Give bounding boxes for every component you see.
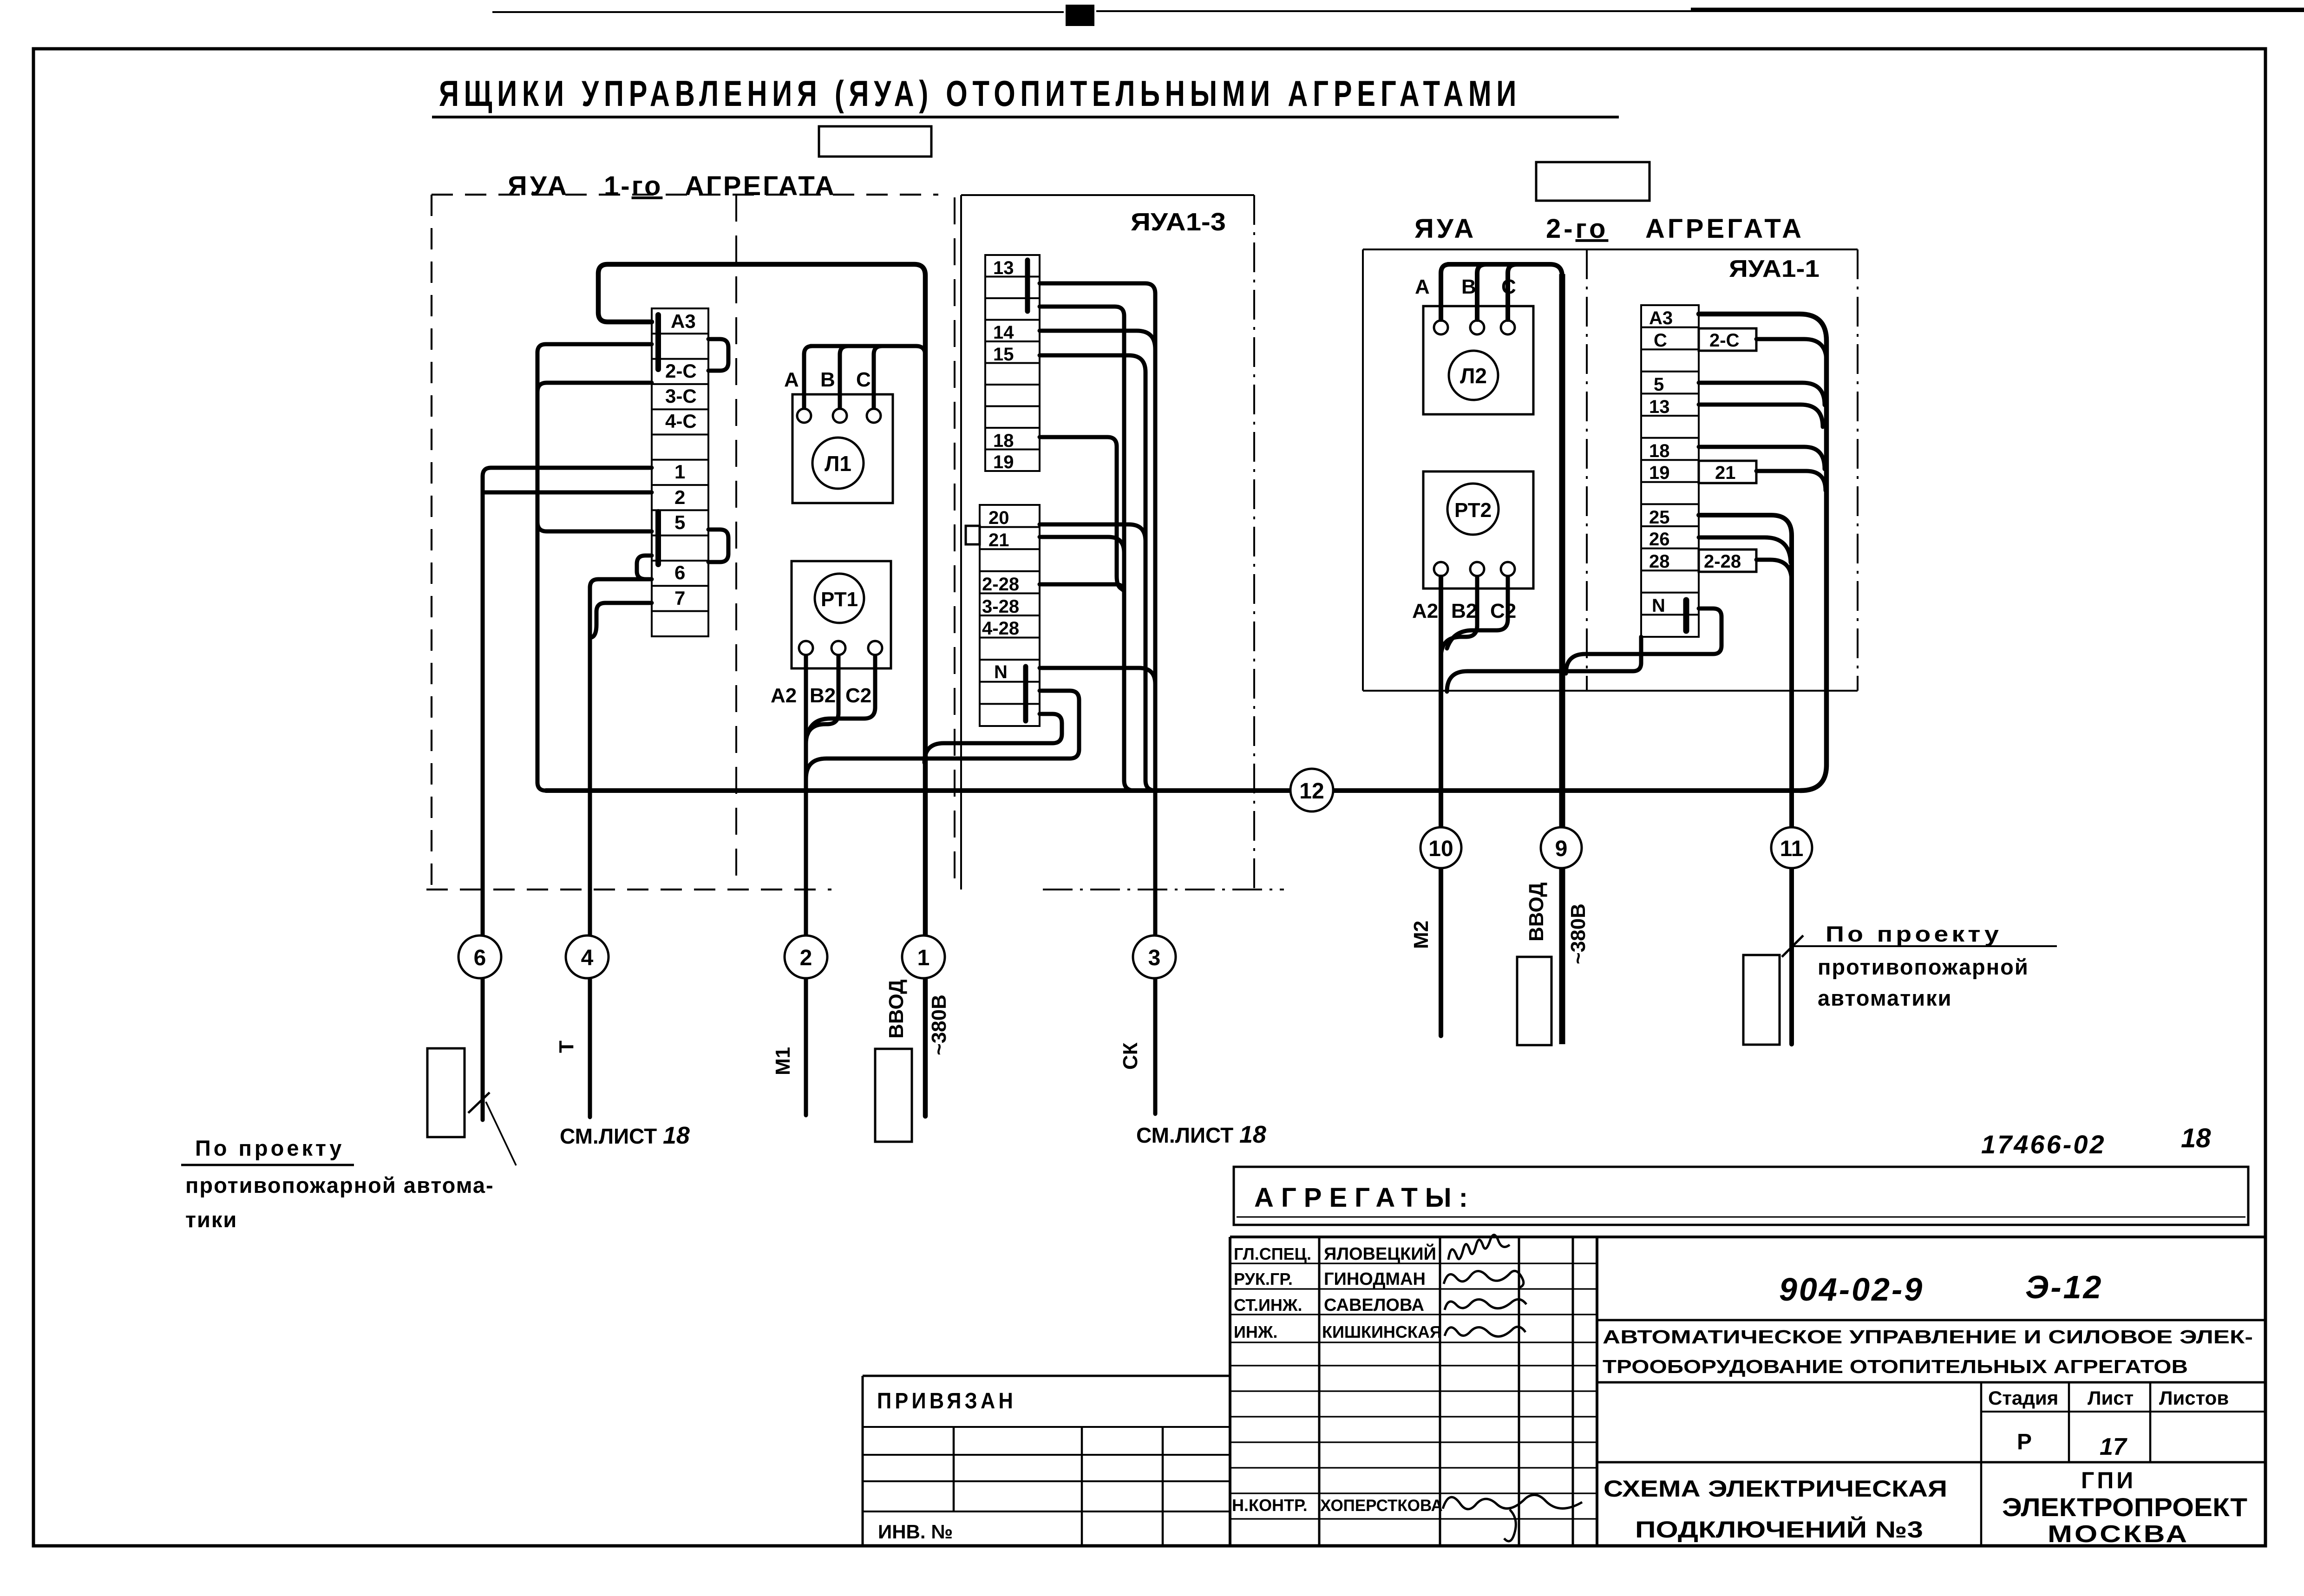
svg-text:САВЕЛОВА: САВЕЛОВА <box>1324 1295 1424 1315</box>
relay RT2 terminal C2 <box>1501 562 1515 576</box>
svg-text:18: 18 <box>993 431 1014 451</box>
terminal strip X1 row lines <box>652 334 708 611</box>
box YAUA2 unit top edge <box>1363 249 1858 250</box>
titleblock names table column lines <box>1319 1237 1573 1546</box>
scan edge line top right thick <box>1691 8 2304 11</box>
svg-text:автоматики: автоматики <box>1818 986 1952 1010</box>
svg-text:А: А <box>1415 275 1430 298</box>
wire RT2 A2 down to cable 10 <box>1439 577 1443 1036</box>
contactor L1 terminal C <box>867 409 881 423</box>
relay RT2 terminal B2 <box>1470 562 1484 576</box>
wire 26 row joining cable 11 <box>1699 537 1791 563</box>
svg-text:2-28: 2-28 <box>982 574 1019 595</box>
svg-text:26: 26 <box>1649 529 1670 549</box>
box YAUA1 internal divider line 1 <box>735 195 737 890</box>
wire L2 phase C riser <box>1508 264 1517 320</box>
relay RT1 symbol circle <box>815 574 864 623</box>
wire L1 phase B riser <box>840 346 848 408</box>
tick mark on cable 11 <box>1782 935 1803 957</box>
svg-text:2-28: 2-28 <box>1704 551 1741 572</box>
relay RT2 symbol circle <box>1447 484 1499 535</box>
svg-text:N: N <box>994 662 1008 682</box>
wire L2 phase A riser <box>1441 264 1450 320</box>
svg-text:18: 18 <box>1649 441 1670 461</box>
svg-text:ИНЖ.: ИНЖ. <box>1234 1322 1277 1341</box>
svg-text:ТРООБОРУДОВАНИЕ ОТОПИТЕЛЬНЫХ А: ТРООБОРУДОВАНИЕ ОТОПИТЕЛЬНЫХ АГРЕГАТОВ <box>1603 1356 2188 1377</box>
svg-text:Листов: Листов <box>2159 1387 2229 1409</box>
wire terminal 14 joining vertical <box>1040 331 1155 349</box>
relay RT2 box <box>1423 471 1533 589</box>
svg-text:Л1: Л1 <box>825 451 851 476</box>
svg-text:4: 4 <box>581 946 594 970</box>
relay RT1 terminal A2 <box>799 641 813 655</box>
wire L2 bus to feeder cable 9 <box>1448 264 1562 276</box>
svg-text:3-28: 3-28 <box>982 596 1019 617</box>
contactor L2 terminal B <box>1470 321 1484 334</box>
stage header row line <box>1981 1411 2265 1413</box>
svg-text:6: 6 <box>474 946 486 970</box>
svg-text:ИНВ. №: ИНВ. № <box>878 1521 953 1543</box>
svg-text:17: 17 <box>2100 1433 2127 1460</box>
wire strip bottom jumper to cable 10 <box>1447 637 1641 692</box>
svg-text:12: 12 <box>1299 779 1324 804</box>
svg-text:~380В: ~380В <box>1567 903 1590 964</box>
terminal X1 jumper bar A3 <box>655 315 661 369</box>
svg-text:2: 2 <box>800 946 812 970</box>
svg-text:25: 25 <box>1649 507 1670 528</box>
signature squiggle 1 <box>1448 1235 1510 1260</box>
wire bus net 12 right span <box>1312 788 1800 793</box>
node circle 3 <box>1133 935 1176 978</box>
svg-text:АГРЕГАТЫ:: АГРЕГАТЫ: <box>1254 1183 1475 1213</box>
svg-text:1-го: 1-го <box>604 171 662 201</box>
jumper hook right rows 1-2 <box>708 339 728 371</box>
wire L2 phase B riser <box>1477 264 1486 320</box>
wire RT1 A2 down to cable 2 <box>804 656 808 1115</box>
svg-text:РТ2: РТ2 <box>1454 499 1492 522</box>
wire terminal 21 hook joining vertical <box>1040 537 1124 553</box>
privyazan table row lines <box>863 1427 1230 1511</box>
svg-text:15: 15 <box>993 344 1014 365</box>
wire 2-C terminal joining bus riser <box>537 383 652 392</box>
contactor L2 box <box>1423 306 1533 414</box>
svg-text:КИШКИНСКАЯ: КИШКИНСКАЯ <box>1322 1322 1442 1341</box>
svg-text:28: 28 <box>1649 551 1670 572</box>
wire terminal 1 to cable 6 <box>483 468 652 1120</box>
terminal strip YAUA1-3 upper body <box>985 255 1040 471</box>
svg-text:5: 5 <box>674 511 685 533</box>
box YAUA1 unit 1 dashed outline bottom edge <box>426 889 831 890</box>
adapter box 2-28 <box>1699 549 1756 572</box>
titleblock line below project title <box>1597 1381 2265 1384</box>
wire row below 13 down to bus 12 <box>1040 307 1134 791</box>
node circle 11 <box>1771 827 1812 868</box>
box YAUA2 unit left edge <box>1362 249 1364 691</box>
svg-text:С2: С2 <box>1490 600 1516 622</box>
empty reference box right <box>1536 162 1649 201</box>
svg-text:13: 13 <box>1649 397 1670 417</box>
jumper hook right rows 9-10 <box>708 530 728 562</box>
wire loop from N block to cable 2 <box>806 691 1079 779</box>
signature squiggle 2 <box>1444 1271 1524 1288</box>
svg-text:противопожарной: противопожарной <box>1818 955 2029 979</box>
wire jumper X1 row2 to bus corner vertical <box>537 344 652 791</box>
wire terminal 2-28 joining vertical <box>1040 584 1124 593</box>
fire automation box right <box>1743 955 1780 1045</box>
note leader line right <box>1793 945 2057 947</box>
privyazan table outline <box>863 1376 1230 1546</box>
svg-text:11: 11 <box>1780 837 1804 861</box>
box YAUA1-3 top edge <box>961 194 1254 196</box>
node circle 1 <box>902 935 945 978</box>
box YAUA2 unit bottom edge <box>1363 690 1858 692</box>
svg-text:По проекту: По проекту <box>1826 922 2002 946</box>
svg-text:ПРИВЯЗАН: ПРИВЯЗАН <box>877 1389 1016 1413</box>
wire A3 terminal to top run and down to input feeder 1 <box>598 264 925 1116</box>
box YAUA1-3 bottom dash-dot segment <box>1043 889 1284 890</box>
svg-text:ЯУА: ЯУА <box>508 171 569 201</box>
svg-text:20: 20 <box>988 508 1009 528</box>
wire 21 adapter to riser <box>1756 471 1826 491</box>
wire RT2 C2 joining cable 10 <box>1447 577 1508 648</box>
empty reference box under title <box>819 126 931 157</box>
svg-text:Л2: Л2 <box>1460 364 1487 388</box>
svg-text:7: 7 <box>674 587 685 609</box>
adapter box 21 <box>1699 461 1756 483</box>
terminal strip YAUA1-3 upper row lines <box>985 277 1040 450</box>
jumper hook left rows 10-11 <box>637 556 652 579</box>
connector tab at terminal 21 <box>966 526 980 544</box>
svg-text:2-С: 2-С <box>1709 330 1739 351</box>
svg-text:РТ1: РТ1 <box>821 588 858 611</box>
wire 25 row down to cable 11 <box>1699 515 1792 1044</box>
svg-text:3: 3 <box>1148 946 1161 970</box>
note underline left <box>181 1164 354 1166</box>
svg-text:~380В: ~380В <box>928 994 950 1055</box>
svg-text:А: А <box>784 368 799 391</box>
svg-text:А2: А2 <box>1412 600 1438 622</box>
wire 7 terminal joining cable 4 <box>592 603 652 637</box>
svg-text:18: 18 <box>2181 1123 2211 1153</box>
signature squiggle 3 <box>1445 1299 1526 1310</box>
svg-text:ЯЛОВЕЦКИЙ: ЯЛОВЕЦКИЙ <box>1324 1243 1436 1264</box>
box YAUA1 unit 1 dashed outline left edge <box>431 195 432 890</box>
svg-text:Лист: Лист <box>2088 1387 2134 1409</box>
contactor L2 symbol circle <box>1449 351 1498 400</box>
box YAUA1 unit 1 dashed outline top edge <box>432 194 938 196</box>
contactor L2 terminal A <box>1434 321 1448 334</box>
relay RT2 terminal A2 <box>1434 562 1448 576</box>
svg-text:ЯЩИКИ УПРАВЛЕНИЯ (ЯУА) ОТОПИТЕ: ЯЩИКИ УПРАВЛЕНИЯ (ЯУА) ОТОПИТЕЛЬНЫМИ АГР… <box>439 73 1521 114</box>
svg-text:АГРЕГАТА: АГРЕГАТА <box>1645 214 1804 244</box>
signature squiggle 5 <box>1443 1495 1582 1541</box>
svg-text:тики: тики <box>185 1207 237 1232</box>
box YAUA2 internal divider dash-dot <box>1586 249 1588 691</box>
wire 13 row to riser <box>1699 405 1823 427</box>
svg-text:Стадия: Стадия <box>1988 1387 2058 1409</box>
svg-text:МОСКВА: МОСКВА <box>2048 1521 2189 1548</box>
svg-text:Э-12: Э-12 <box>2025 1269 2103 1305</box>
contactor L1 symbol circle <box>812 438 864 489</box>
scan artifact mark <box>1066 5 1094 26</box>
svg-text:ЯУА: ЯУА <box>1414 214 1476 244</box>
svg-text:Р: Р <box>2017 1430 2032 1454</box>
node circle 12 <box>1290 769 1333 811</box>
svg-text:СМ.ЛИСТ 18: СМ.ЛИСТ 18 <box>560 1122 690 1149</box>
wire 5 row to riser <box>1699 383 1825 405</box>
wire terminal 20 hook down <box>1040 524 1145 541</box>
relay RT1 terminal C2 <box>868 641 882 655</box>
svg-text:АГРЕГАТА: АГРЕГАТА <box>685 171 836 201</box>
svg-text:В2: В2 <box>1451 600 1477 622</box>
tick mark on cable 6 <box>468 1092 490 1113</box>
svg-text:ВВОД: ВВОД <box>885 980 908 1039</box>
node circle 2 <box>785 935 827 978</box>
svg-text:По проекту: По проекту <box>195 1136 344 1160</box>
terminal strip YAUA1-1 body <box>1641 305 1699 637</box>
titleblock line below 904 cell <box>1597 1319 2265 1321</box>
wire 2-C adapter to riser <box>1756 339 1826 361</box>
box YAUA2 unit right edge dash-dot <box>1857 249 1859 691</box>
wire RT1 C2 joining cable 2 <box>808 656 875 734</box>
svg-text:А2: А2 <box>771 684 797 707</box>
svg-text:ГЛ.СПЕЦ.: ГЛ.СПЕЦ. <box>1234 1244 1311 1263</box>
stage column lines <box>1981 1382 2150 1546</box>
svg-text:ХОПЕРСТКОВА: ХОПЕРСТКОВА <box>1320 1497 1443 1515</box>
svg-text:3-С: 3-С <box>665 385 697 407</box>
svg-text:ЯУА1-3: ЯУА1-3 <box>1131 208 1226 236</box>
svg-text:В: В <box>1461 275 1476 298</box>
svg-text:N: N <box>1652 595 1665 616</box>
node circle 10 <box>1420 827 1461 868</box>
svg-text:9: 9 <box>1555 837 1568 861</box>
wire terminal 18 down to bus 12 <box>1040 437 1124 591</box>
svg-text:4-28: 4-28 <box>982 618 1019 639</box>
svg-text:21: 21 <box>988 530 1009 550</box>
svg-text:6: 6 <box>674 562 685 583</box>
svg-text:1: 1 <box>917 946 930 970</box>
svg-text:ГИНОДМАН: ГИНОДМАН <box>1324 1269 1426 1289</box>
svg-text:С: С <box>1654 330 1667 351</box>
svg-text:А3: А3 <box>1649 308 1673 328</box>
contactor L1 terminal B <box>833 409 847 423</box>
svg-text:СТ.ИНЖ.: СТ.ИНЖ. <box>1234 1295 1302 1315</box>
wire RT2 B2 joining cable 10 <box>1441 577 1477 657</box>
svg-text:13: 13 <box>993 258 1014 278</box>
svg-text:С2: С2 <box>845 684 871 707</box>
signature squiggle 4 <box>1445 1327 1525 1336</box>
svg-text:ВВОД: ВВОД <box>1525 883 1548 942</box>
svg-text:РУК.ГР.: РУК.ГР. <box>1234 1269 1293 1289</box>
box YAUA1 internal divider line 2 <box>954 197 956 890</box>
svg-text:М2: М2 <box>1410 921 1433 949</box>
svg-text:АВТОМАТИЧЕСКОЕ УПРАВЛЕНИЕ И СИ: АВТОМАТИЧЕСКОЕ УПРАВЛЕНИЕ И СИЛОВОЕ ЭЛЕК… <box>1603 1326 2253 1347</box>
terminal jumper bar 13 <box>1025 260 1030 311</box>
privyazan table column lines <box>954 1427 1163 1546</box>
agregaty box inner line <box>1237 1217 2245 1218</box>
svg-text:21: 21 <box>1715 463 1736 483</box>
svg-text:ЭЛЕКТРОПРОЕКТ: ЭЛЕКТРОПРОЕКТ <box>2002 1492 2247 1522</box>
svg-text:17466-02: 17466-02 <box>1981 1130 2106 1159</box>
svg-text:2-С: 2-С <box>665 360 697 382</box>
node circle 6 <box>458 935 501 978</box>
svg-text:Т: Т <box>555 1040 578 1053</box>
svg-text:2-го: 2-го <box>1546 214 1608 244</box>
svg-text:В: В <box>820 368 835 391</box>
wire L1 bus to feeder cable 1 <box>811 346 925 355</box>
relay RT1 terminal B2 <box>831 641 845 655</box>
wire L1 phase C riser <box>874 346 882 408</box>
svg-text:1: 1 <box>674 461 685 483</box>
box YAUA1-3 right edge dash-dot <box>1253 195 1255 888</box>
svg-text:ПОДКЛЮЧЕНИЙ №3: ПОДКЛЮЧЕНИЙ №3 <box>1635 1516 1923 1543</box>
wire terminal 2 stub joining cable 6 <box>483 491 652 495</box>
terminal strip YAUA1-1 row lines <box>1641 327 1699 615</box>
svg-text:ЯУА1-1: ЯУА1-1 <box>1729 255 1820 282</box>
fire automation box left <box>427 1048 465 1137</box>
node circle 4 <box>566 935 609 978</box>
svg-text:В2: В2 <box>810 684 836 707</box>
wire RT1 B2 joining cable 2 <box>806 656 838 744</box>
svg-text:904-02-9: 904-02-9 <box>1779 1271 1924 1308</box>
terminal jumper bar N right strip <box>1683 600 1689 631</box>
wire bus net 12 left span <box>546 788 1312 793</box>
wire N of YAUA1-1 to feeder bundle 9 <box>1566 608 1721 674</box>
svg-text:М1: М1 <box>772 1047 794 1075</box>
svg-text:5: 5 <box>1654 374 1664 395</box>
relay RT1 box <box>792 561 891 668</box>
titleblock line below stage row <box>1597 1461 2265 1464</box>
wire jumper branch into X1 row10 <box>537 522 652 531</box>
box YAUA1-3 left edge <box>960 195 962 890</box>
svg-text:СМ.ЛИСТ 18: СМ.ЛИСТ 18 <box>1136 1121 1266 1148</box>
terminal jumper bar N <box>1023 667 1028 721</box>
agregaty box <box>1234 1167 2248 1225</box>
wire A3 row to right riser and bus 12 corner <box>1699 314 1826 791</box>
vvod rectangle bottom left <box>875 1049 912 1142</box>
svg-text:противопожарной автома-: противопожарной автома- <box>185 1173 494 1197</box>
wire 2-28 adapter joining cable 11 <box>1756 560 1792 581</box>
svg-text:14: 14 <box>993 322 1014 343</box>
wire terminal 13 to cable 3 SK <box>1040 283 1155 1114</box>
leader line to fire automation note <box>486 1102 516 1165</box>
title underline <box>432 116 1619 118</box>
adapter box 2-C <box>1699 328 1756 351</box>
svg-text:10: 10 <box>1428 837 1453 861</box>
titleblock names table outline <box>1230 1237 2265 1546</box>
terminal strip YAUA1-3 lower body <box>980 505 1040 726</box>
svg-text:19: 19 <box>993 452 1014 472</box>
contactor L1 terminal A <box>797 409 811 423</box>
svg-text:Н.КОНТР.: Н.КОНТР. <box>1232 1496 1308 1515</box>
contactor L2 terminal C <box>1501 321 1515 334</box>
scan edge line top <box>492 11 2304 12</box>
wire terminal 15 joining vertical <box>1040 355 1156 791</box>
node circle 9 <box>1541 827 1582 868</box>
vvod rectangle bottom right <box>1517 957 1551 1045</box>
titleblock names table row lines <box>1230 1263 1597 1519</box>
terminal strip X1 body <box>652 308 708 636</box>
contactor L1 box <box>792 394 893 503</box>
wire feeder bundle 9 vertical <box>1559 274 1565 1044</box>
svg-text:4-С: 4-С <box>665 410 697 432</box>
wire L1 phase A riser <box>804 346 812 408</box>
wire 6 terminal to cable 4 <box>590 579 652 1117</box>
svg-text:ГПИ: ГПИ <box>2081 1467 2136 1493</box>
terminal X1 jumper bar 5 <box>655 512 661 564</box>
wire terminal N joining vertical to SK <box>1040 668 1155 684</box>
svg-text:СК: СК <box>1119 1042 1142 1070</box>
svg-text:19: 19 <box>1649 463 1670 483</box>
wire loop from strip bottom to feeder 1 <box>924 714 1062 763</box>
terminal strip YAUA1-3 lower row lines <box>980 527 1040 704</box>
svg-text:А3: А3 <box>671 310 696 332</box>
svg-text:С: С <box>856 368 871 391</box>
wire 18 row to riser <box>1699 447 1825 469</box>
titleblock names table right edge <box>1596 1237 1598 1546</box>
svg-text:2: 2 <box>674 486 685 508</box>
svg-text:СХЕМА ЭЛЕКТРИЧЕСКАЯ: СХЕМА ЭЛЕКТРИЧЕСКАЯ <box>1604 1476 1947 1502</box>
